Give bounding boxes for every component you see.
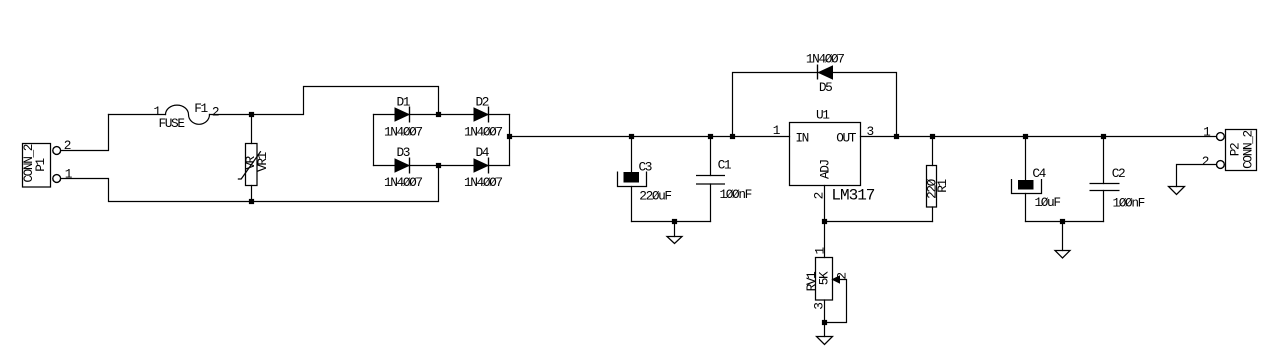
capacitor C1 [696, 158, 752, 203]
wire P1 pin1 to bottom rail [61, 166, 439, 202]
svg-text:22ØuF: 22ØuF [639, 189, 671, 204]
svg-text:1ØuF: 1ØuF [1035, 195, 1061, 210]
svg-text:P1: P1 [33, 158, 48, 172]
wire R1 bottom to ADJ node [825, 221, 933, 223]
op-amp U1 LM317 regulator box [790, 108, 875, 205]
wire R1 bottom lead [932, 207, 934, 222]
svg-text:D2: D2 [476, 95, 489, 110]
wire fuse to VR1 node and jog over bridge [210, 87, 439, 115]
wire ground stem left [674, 222, 676, 237]
fuse F1 body arcs [166, 105, 210, 124]
wire D4 row [439, 165, 510, 167]
node fuse-VR1 junction [249, 112, 254, 117]
capacitor C2 [1090, 166, 1145, 211]
diode D3 [384, 145, 422, 190]
svg-text:D5: D5 [819, 80, 832, 95]
wire RV1 ground stem [824, 323, 826, 337]
connector P1 [21, 138, 73, 187]
wire RV1 wiper return [828, 280, 847, 323]
svg-text:3: 3 [867, 124, 874, 139]
wire ground join C3-C1 [632, 221, 711, 223]
svg-text:C1: C1 [718, 158, 732, 173]
svg-text:ADJ: ADJ [818, 159, 833, 179]
svg-text:3: 3 [811, 303, 826, 310]
wire D3 row [374, 165, 439, 167]
wire C4 bottom lead [1025, 194, 1027, 222]
connector P2 [1202, 125, 1257, 171]
svg-text:D1: D1 [397, 95, 411, 110]
wire C2 bottom lead [1103, 191, 1105, 222]
wire D1 row [374, 114, 439, 116]
wire D5 bypass loop [733, 73, 897, 137]
svg-text:CONN_2: CONN_2 [1241, 130, 1256, 168]
svg-text:1N4ØØ7: 1N4ØØ7 [384, 175, 422, 190]
node right ground junction [1060, 219, 1065, 224]
node bridge top AC junction [436, 112, 441, 117]
wire U1 OUT rail to P2 [861, 136, 1217, 138]
svg-text:IN: IN [795, 131, 808, 146]
node C3 tap [629, 134, 634, 139]
potentiometer RV1 [804, 247, 850, 310]
svg-text:1N4ØØ7: 1N4ØØ7 [806, 52, 844, 67]
svg-text:C2: C2 [1112, 166, 1125, 181]
wire D2 row [439, 114, 510, 116]
wire bridge left vertical [373, 115, 375, 166]
wire main rail bridge output to U1 IN [510, 136, 790, 138]
wire bridge right vertical [509, 115, 511, 166]
svg-text:1ØØnF: 1ØØnF [1113, 196, 1145, 211]
svg-text:5K: 5K [817, 271, 832, 285]
svg-text:C3: C3 [639, 160, 652, 175]
capacitor C4 [1012, 166, 1061, 210]
wire C1 top lead [710, 137, 712, 176]
wire C3 bottom lead [631, 187, 633, 222]
wire C1 bottom lead [710, 184, 712, 222]
svg-text:R1: R1 [935, 179, 950, 193]
wire ground stem right [1062, 222, 1064, 251]
diode D1 [384, 95, 422, 140]
wire P1 pin2 to fuse line [61, 115, 109, 151]
wire RV1 pin3 lead [824, 300, 826, 323]
node C4 tap [1023, 134, 1028, 139]
svg-text:2: 2 [835, 273, 850, 280]
svg-text:OUT: OUT [836, 131, 857, 146]
node bridge output junction [507, 134, 512, 139]
node ADJ junction [822, 219, 827, 224]
svg-text:1N4ØØ7: 1N4ØØ7 [384, 125, 422, 140]
svg-text:1N4ØØ7: 1N4ØØ7 [464, 125, 502, 140]
svg-text:2: 2 [64, 138, 71, 153]
fuse F1 labels [154, 101, 219, 131]
node RV1 bottom junction [822, 320, 827, 325]
svg-text:FUSE: FUSE [159, 116, 186, 131]
capacitor C3 [618, 160, 672, 204]
wire R1 top lead [932, 137, 934, 166]
node left ground junction [672, 219, 677, 224]
diode D5 [806, 52, 844, 96]
wire VR1 top lead [251, 115, 253, 144]
svg-text:VR1: VR1 [255, 151, 270, 172]
wire C4 top lead [1025, 137, 1027, 181]
node C1 tap [708, 134, 713, 139]
wire ADJ node to RV1 pin1 [824, 222, 826, 258]
node C2 tap [1101, 134, 1106, 139]
wire fuse line left [109, 114, 166, 116]
wire U1 ADJ lead [824, 186, 826, 222]
svg-text:2: 2 [1202, 154, 1209, 169]
svg-text:C4: C4 [1032, 166, 1046, 181]
svg-text:1ØØnF: 1ØØnF [720, 187, 752, 202]
diode D4 [464, 145, 502, 190]
wire C3 top lead [631, 137, 633, 173]
svg-text:LM317: LM317 [831, 187, 874, 205]
node bridge bottom AC junction [436, 163, 441, 168]
svg-text:F1: F1 [194, 101, 208, 116]
node D5 left tap [730, 134, 735, 139]
node R1 tap [930, 134, 935, 139]
wire P2 pin2 to ground [1177, 165, 1217, 187]
wire C2 top lead [1103, 137, 1105, 184]
svg-text:D3: D3 [397, 145, 410, 160]
ground left (C3/C1) [667, 237, 682, 244]
resistor R1 [924, 166, 950, 208]
diode D2 [464, 95, 502, 140]
svg-text:2: 2 [212, 105, 219, 120]
ground P2 [1169, 187, 1185, 195]
ground right (C4/C2) [1055, 251, 1070, 259]
wire ground join C4-C2 [1026, 221, 1104, 223]
node VR1 bottom junction [249, 199, 254, 204]
svg-text:D4: D4 [476, 145, 490, 160]
svg-text:U1: U1 [816, 108, 830, 123]
varistor VR1 [238, 144, 270, 186]
svg-text:2: 2 [812, 192, 827, 199]
svg-text:1N4ØØ7: 1N4ØØ7 [464, 175, 502, 190]
wire VR1 bottom lead [251, 186, 253, 202]
node D5 right tap [894, 134, 899, 139]
ground RV1 [817, 337, 833, 345]
